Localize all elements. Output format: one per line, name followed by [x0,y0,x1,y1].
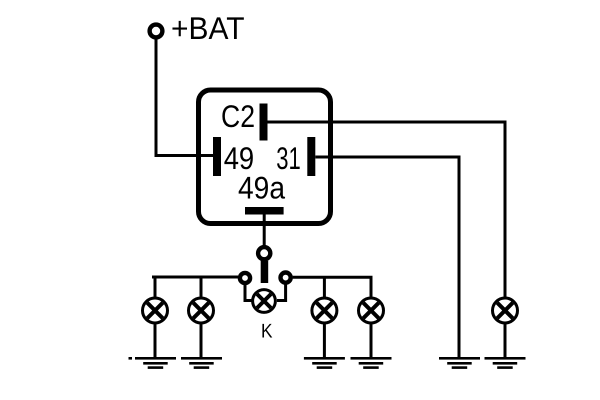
terminal bar 49 [213,137,221,176]
wire lamp L2 to ground [200,324,203,358]
wire lamp L3 to ground [323,324,326,358]
ground G1 [135,357,176,369]
terminal bar 49a [245,207,284,215]
svg-text:C2: C2 [221,99,255,134]
lamp L4 [359,298,384,323]
wire left bus [152,276,238,279]
svg-text:+BAT: +BAT [171,11,245,46]
terminal bar 31 [307,137,315,176]
switch S1 lever [261,261,269,283]
wire bus to lamp L1 [154,277,157,298]
wire 49a to switch [263,215,266,247]
ground G3 [304,357,345,369]
lamp L3 [312,298,337,323]
wire bus to lamp L4 [370,277,373,298]
wire lamp L4 to ground [370,324,373,358]
lamp L2 [189,298,214,323]
ground G4 [351,357,392,369]
wire left contact to lamp K [245,284,252,301]
lamp K [253,290,276,313]
switch S1 left contact [240,273,250,283]
wire lamp L1 to ground [154,324,157,358]
ground G2 [181,357,222,369]
wire 31 to ground [315,157,459,357]
wire right bus [293,276,373,279]
switch S1 pivot terminal [258,247,270,259]
lamp L5 [493,298,518,323]
switch S1 right contact [281,273,291,283]
wire +BAT to terminal 49 [156,40,213,156]
svg-text:K: K [261,320,273,342]
wire bus to lamp L3 [323,277,326,298]
wire C2 to lamp L5 [268,122,506,298]
terminal +BAT [150,25,163,38]
terminal bar C2 [260,104,268,141]
lamp L1 [143,298,168,323]
wire stub [129,357,133,360]
ground G6 [485,357,526,369]
ground G5 (terminal 31) [439,357,480,369]
relay U1 body [199,90,331,224]
wire bus to lamp L2 [200,277,203,298]
wire right contact to lamp K [277,284,286,301]
wire lamp L5 to ground [504,324,507,358]
svg-text:49a: 49a [238,170,285,205]
